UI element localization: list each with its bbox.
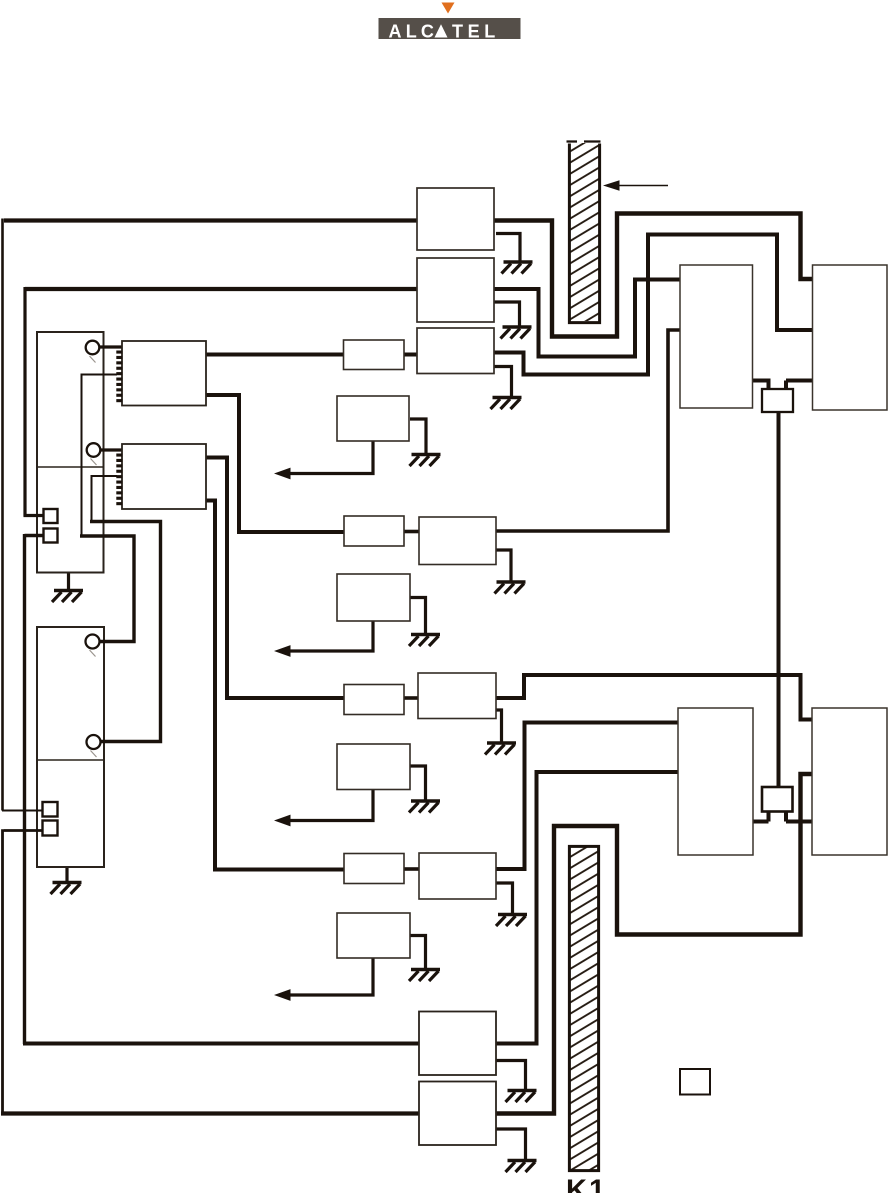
ground box F [506,1161,537,1173]
wire: rect D to box D [404,867,419,871]
coax connector c1 [86,341,100,355]
coax connector c3 [86,635,100,649]
tall rect 1 divider [37,466,104,468]
ground G2 [501,327,532,339]
coax connector c4 [87,735,101,749]
wire: IC2 pin to connector c4 (lower part) [90,522,161,742]
wire: IC1 pin to connector c3 (lower part) [80,536,134,642]
wire: chain A bottom into box F [1,1111,419,1115]
arrow out of filter C [274,790,373,827]
wire: square2 out, chain B down [25,534,45,1044]
ground tall rect 1 [52,591,83,603]
connector c4 tail [91,751,97,758]
ground box C [485,743,516,755]
arrow pointing to upper shield bar [603,180,668,190]
ground tall rect 2 [51,883,82,895]
wire: rect B to box B [404,530,419,534]
wire: box2 right under bar to middle block 1 [494,280,680,357]
ground filter A [410,455,441,467]
ground box D [496,915,527,927]
connector square 1 [44,509,58,523]
block filter D [337,913,410,958]
wire: IC1 to rect A [206,353,344,357]
block box1 (top right stack) [417,188,494,250]
block box D [419,853,496,899]
middle block 1 (right group top) [680,265,753,408]
wire: IC1 pin to connector c3 (upper thin part) [82,375,118,537]
wire: square4 out, chain A down [3,829,44,1114]
ground stub tall rect 2 [65,867,68,883]
tall rect 2 (antenna block bottom) [37,627,104,867]
block box E (bottom) [419,1012,496,1076]
wire: IC2 down to row C [206,458,344,699]
svg-text:K1: K1 [566,1175,607,1193]
wire: connector c1 to IC1 [99,345,122,348]
block box2 [417,258,494,322]
wire: box1 right around upper bar to right block 1 [494,214,813,337]
ground stub filter D [410,936,426,970]
wire: box1 left to outer loop (chain A top) [4,218,417,222]
ground stub box B [496,550,511,582]
ground stub tall rect 1 [67,573,70,591]
ground filter D [409,970,440,982]
wire: box C to right block 2 [496,675,812,720]
connector c1 tail [90,356,96,363]
wire: box D up to middle block 2 [496,723,678,870]
filter rect A [344,340,405,370]
wire: chain B bottom into box E [23,1042,419,1046]
connector square 4 [43,821,58,836]
block box F (bottom) [419,1082,496,1146]
wire: IC1 down to row B [206,395,344,532]
connector square 3 [43,802,58,817]
lower shield bar K1 (hatched) [569,846,598,1170]
Alcatel logo orange triangle [442,3,455,14]
wire: box E up to middle block 2 [496,772,678,1044]
wire: rect A to box3 [404,353,417,357]
ground G3 [491,398,522,410]
ground G3 stub (box3) [494,367,512,398]
legend square (bottom right) [680,1069,710,1095]
tall rect 2 divider [37,759,104,761]
block filter B [337,574,410,621]
wire: chain B vertical upper [23,287,26,517]
block filter C [337,744,410,790]
arrow out of filter A [274,441,373,479]
ground box B [495,582,526,594]
wire: IC2 pin to connector c4 (upper thin part) [92,476,118,522]
wire: box2 left to chain B [25,287,417,291]
ground stub box C [496,710,502,743]
wire: rect C to box C [404,696,418,700]
arrow out of filter D [274,958,373,1001]
coax connector c2 [87,443,101,457]
IC1 pins [116,351,122,403]
wire: rail middle block 2 to small box 2 [753,812,769,822]
wire: chain A into square3 [2,810,43,812]
wire: rail middle block 1 to small box 1 [753,381,769,390]
wire: box F around lower bar to right block 2 [496,774,812,1114]
upper shield bar K (hatched) [567,142,601,323]
ground stub filter C [410,766,426,801]
wire: rail small box 2 to right block 2 [786,812,812,822]
ground stub box F [496,1129,526,1161]
filter rect B [344,516,404,546]
ground stub box D [496,883,513,915]
block filter A [337,396,409,441]
wire: IC2 down to row D [206,501,344,870]
ground G1 [502,262,533,274]
right block 1 [813,265,888,410]
tall rect 1 (antenna block top) [37,332,104,573]
ground stub filter B [410,598,426,635]
ground G2 stub (box2) [494,302,520,327]
wire: long vertical small box 1 to small box 2 [777,412,781,787]
filter rect D [344,854,404,884]
ground G1 stub (box1) [496,234,520,263]
ground filter B [409,635,440,647]
filter rect C [344,685,404,715]
ground stub filter A [410,419,426,455]
arrow out of filter B [274,621,373,657]
connector c2 tail [91,459,97,466]
wire: box B up to middle block 1 [496,330,680,531]
connector c3 tail [90,650,96,657]
wire: connector c2 to IC2 [100,448,122,451]
ground box E [506,1091,537,1103]
wire: outer-left vertical chain A [1,219,4,811]
wire: box3 right under bar to right block 1 [494,235,813,375]
right block 2 [812,708,887,855]
small box 1 [762,389,793,412]
ground filter C [409,801,440,813]
svg-text:ALC: ALC [389,21,439,41]
IC1 body [122,341,206,406]
block box C [418,673,496,719]
IC2 body [122,444,206,509]
IC2 pins [116,454,122,506]
Alcatel logo white triangle [435,24,448,37]
wire: chain B into square1 [24,514,45,517]
svg-text:TEL: TEL [452,21,500,41]
small box 2 [762,787,793,812]
Alcatel logo bar [379,18,521,39]
block box B [419,517,496,565]
block box3 [417,328,494,374]
middle block 2 (right group bottom) [678,708,753,855]
wire: rail small box 1 to right block 1 [786,381,813,390]
ground stub box E [496,1061,526,1091]
connector square 2 [44,529,58,543]
